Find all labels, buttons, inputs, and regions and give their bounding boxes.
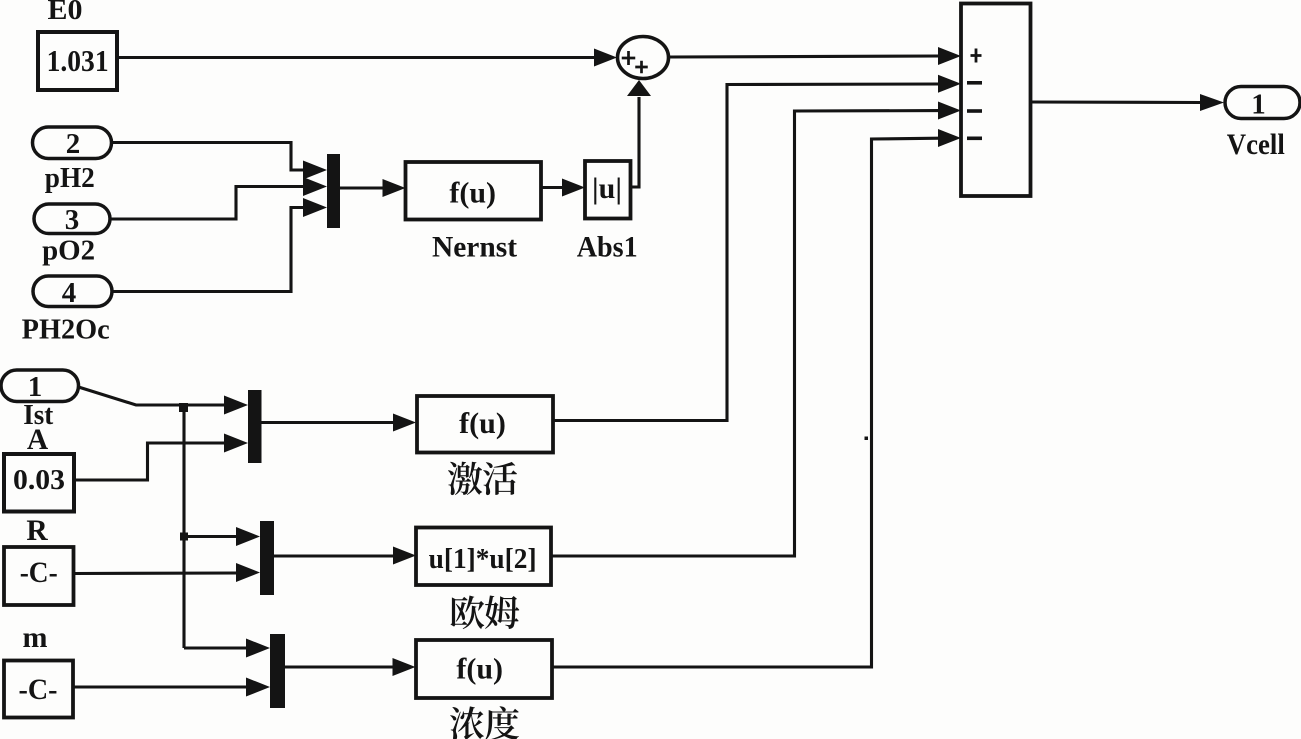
wire A to Mux2 input 2 (74, 434, 248, 481)
inport 4 PH2Oc (33, 276, 112, 309)
svg-text:PH2Oc: PH2Oc (22, 315, 110, 346)
svg-text:pO2: pO2 (42, 236, 95, 267)
svg-text:E0: E0 (48, 0, 83, 26)
wire m to Mux4 input 2 (74, 678, 270, 697)
wire Ist to Mux4 input 1 (184, 639, 270, 658)
svg-text:Nernst: Nernst (432, 231, 517, 264)
svg-text:u[1]*u[2]: u[1]*u[2] (429, 543, 537, 575)
mux Mux4 (270, 634, 285, 708)
wire Sum2 to Vcell (1031, 94, 1225, 111)
svg-text:pH2: pH2 (45, 163, 95, 194)
block activation f(u) (417, 396, 553, 453)
svg-text:-C-: -C- (19, 673, 58, 706)
svg-text:|u|: |u| (592, 172, 622, 205)
inport 3 pO2 (34, 204, 110, 236)
wire Nernst to Abs1 (541, 179, 585, 197)
sum block Sum2 (961, 4, 1031, 197)
wire Sum1 to Sum2 plus input (670, 47, 961, 65)
mux Mux1 (327, 154, 340, 228)
wire activation to Sum2 minus 1 (553, 75, 961, 421)
wire Mux1 to Nernst (340, 179, 406, 197)
mux Mux2 (248, 390, 262, 463)
svg-text:f(u): f(u) (456, 653, 503, 686)
svg-text:-C-: -C- (20, 556, 58, 589)
label oumu (ohmic) (450, 596, 519, 630)
label nongdu (concentration) (450, 706, 519, 739)
label jihuo (activation) (448, 462, 517, 496)
svg-text:Abs1: Abs1 (577, 231, 638, 264)
svg-text:f(u): f(u) (459, 407, 506, 440)
outport 1 Vcell (1225, 87, 1300, 121)
svg-text:4: 4 (62, 277, 77, 309)
sum junction Sum1 (++) (618, 37, 669, 79)
svg-text:0.03: 0.03 (13, 464, 65, 496)
block Nernst f(u) (406, 162, 542, 220)
block Abs1 |u| (585, 161, 631, 219)
wire pO2 to Mux1 (110, 177, 327, 219)
block concentration f(u) (416, 640, 552, 698)
inport 2 pH2 (33, 127, 112, 160)
block ohmic u[1]*u[2] (416, 528, 551, 586)
svg-text:1.031: 1.031 (47, 43, 109, 78)
svg-text:R: R (26, 515, 48, 547)
wire Ist to Mux2 input 1 (79, 387, 249, 415)
wire Ist vertical trunk (182, 405, 185, 648)
node stray speck (865, 437, 869, 441)
svg-text:m: m (23, 621, 48, 654)
node Ist junction (179, 403, 188, 412)
wire Mux3 to ohmic block (274, 547, 416, 565)
svg-text:2: 2 (66, 128, 81, 160)
svg-text:1: 1 (28, 371, 43, 403)
mux Mux3 (260, 521, 274, 595)
wire pH2 to Mux1 (112, 143, 328, 180)
wire concentration to Sum2 minus 3 (552, 129, 961, 667)
constant E0 value 1.031 (38, 32, 117, 90)
wire R to Mux3 input 2 (74, 563, 260, 582)
svg-text:f(u): f(u) (449, 177, 496, 210)
wire Mux4 to concentration block (285, 658, 416, 676)
constant m value -C- (4, 661, 73, 718)
constant R value -C- (4, 547, 74, 605)
svg-text:1: 1 (1251, 89, 1266, 121)
wire E0 to sum junction (117, 49, 617, 67)
wire Abs1 to Sum1 bottom (627, 80, 651, 187)
svg-text:3: 3 (65, 204, 80, 236)
constant A value 0.03 (4, 454, 74, 512)
wire Mux2 to activation block (262, 414, 417, 432)
svg-text:Vcell: Vcell (1227, 128, 1285, 161)
inport 1 Ist (1, 370, 79, 403)
svg-text:A: A (27, 424, 49, 456)
wire Ist to Mux3 input 1 (184, 527, 260, 546)
node Ist junction 2 (180, 533, 188, 541)
wire PH2Oc to Mux1 (112, 198, 327, 292)
wire ohmic to Sum2 minus 2 (551, 102, 961, 557)
